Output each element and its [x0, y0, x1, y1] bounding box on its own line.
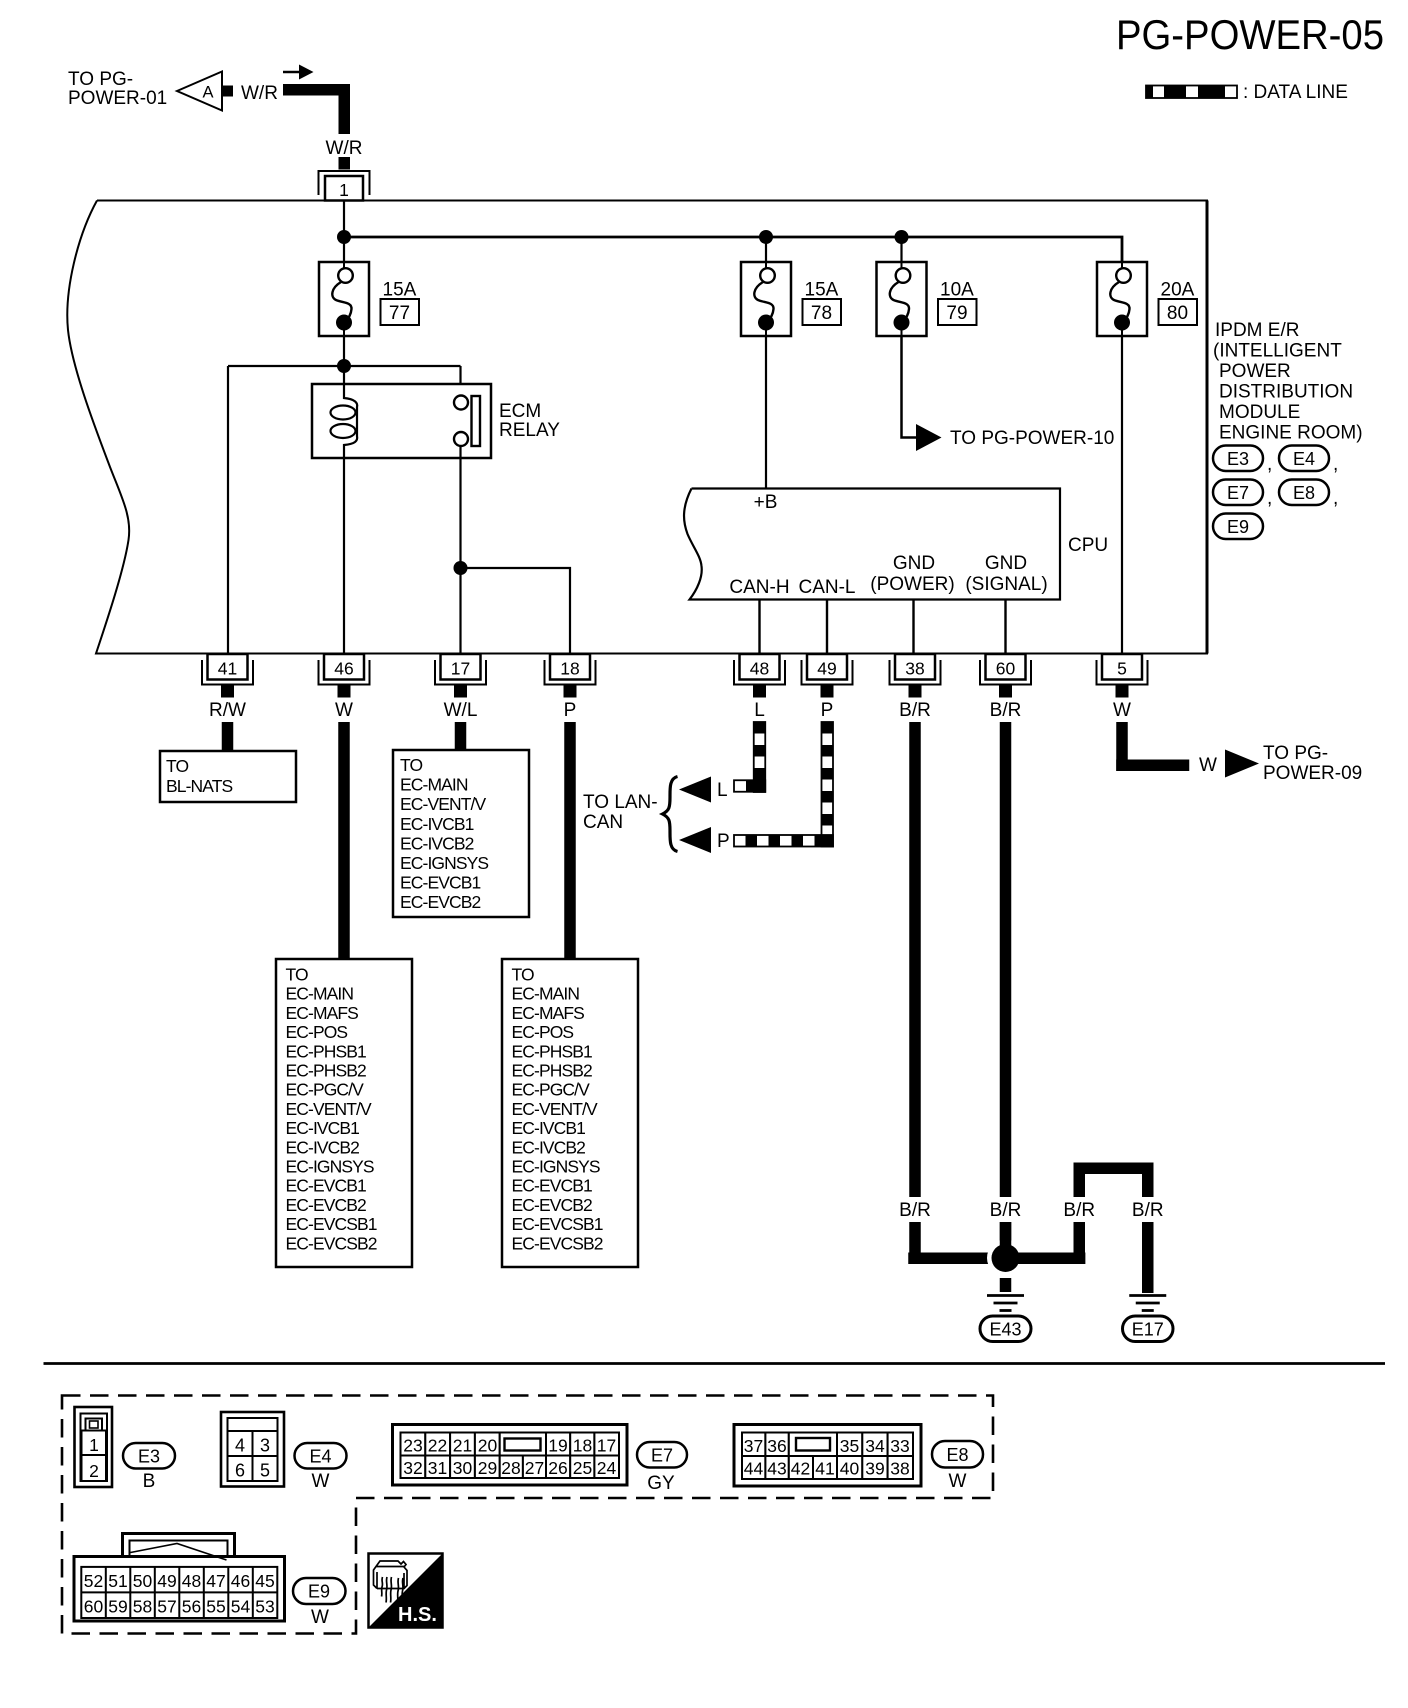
svg-text:48: 48 — [750, 659, 769, 679]
svg-text:30: 30 — [453, 1458, 473, 1478]
fuse 79 10A — [877, 262, 977, 336]
pin 48 — [734, 654, 785, 698]
connector arrow P to LAN-CAN — [679, 827, 711, 853]
svg-text:EC-MAFS: EC-MAFS — [512, 1003, 585, 1023]
svg-text:EC-IGNSYS: EC-IGNSYS — [400, 853, 488, 873]
label IPDM E/R block — [1213, 320, 1363, 444]
svg-text:31: 31 — [428, 1458, 447, 1478]
node junction dot relay-18 — [454, 561, 468, 575]
svg-text:18: 18 — [560, 659, 579, 679]
svg-text:17: 17 — [451, 659, 470, 679]
connector ref E9 oval — [1213, 514, 1263, 540]
wire CAN-L to pin 49 — [826, 600, 828, 655]
connector ref E43 oval — [980, 1316, 1031, 1342]
svg-text:EC-PHSB2: EC-PHSB2 — [286, 1061, 366, 1081]
svg-text:IPDM E/R: IPDM E/R — [1215, 320, 1299, 341]
svg-text:EC-IVCB2: EC-IVCB2 — [286, 1137, 360, 1157]
svg-text:EC-PGC/V: EC-PGC/V — [286, 1080, 365, 1100]
connector ref E3 oval — [1213, 446, 1272, 476]
wire pin1 to bus — [343, 201, 345, 263]
svg-text:EC-MAIN: EC-MAIN — [286, 984, 354, 1004]
svg-text:EC-VENT/V: EC-VENT/V — [512, 1099, 598, 1119]
connector arrow TO PG-POWER-09 — [1225, 750, 1259, 778]
svg-text:10A: 10A — [940, 280, 974, 301]
data wire L from pin 48 — [734, 722, 765, 792]
svg-text:(POWER): (POWER) — [870, 574, 954, 595]
svg-text:EC-MAIN: EC-MAIN — [400, 775, 468, 795]
wire W pin46 down — [338, 722, 350, 959]
svg-text:53: 53 — [255, 1597, 274, 1617]
svg-text:43: 43 — [767, 1459, 786, 1479]
svg-text:H.S.: H.S. — [398, 1604, 437, 1626]
wire R/W to BL-NATS — [222, 722, 234, 751]
svg-text:37: 37 — [744, 1436, 763, 1456]
svg-text:E3: E3 — [1227, 449, 1249, 469]
box EC list pin46 — [276, 959, 412, 1267]
svg-text:49: 49 — [157, 1571, 176, 1591]
svg-text:42: 42 — [791, 1459, 810, 1479]
svg-text:46: 46 — [231, 1571, 250, 1591]
svg-text:19: 19 — [548, 1436, 567, 1456]
svg-text:33: 33 — [890, 1436, 909, 1456]
data line legend — [1146, 82, 1348, 103]
ground E43 — [987, 1296, 1024, 1311]
svg-text:20A: 20A — [1161, 280, 1195, 301]
pin 41 — [202, 654, 253, 698]
svg-text:EC-EVCB1: EC-EVCB1 — [400, 873, 480, 893]
pin 46 — [319, 654, 370, 698]
wire fuse77 to relay with junction — [228, 336, 461, 654]
svg-text:60: 60 — [84, 1597, 104, 1617]
svg-text:49: 49 — [817, 659, 836, 679]
connector ref E9 oval bottom — [293, 1578, 346, 1628]
svg-text:DISTRIBUTION: DISTRIBUTION — [1219, 382, 1353, 403]
svg-text:EC-MAFS: EC-MAFS — [286, 1003, 359, 1023]
svg-text:EC-IVCB2: EC-IVCB2 — [512, 1137, 586, 1157]
svg-text:TO PG-: TO PG- — [1263, 743, 1328, 764]
svg-text:EC-VENT/V: EC-VENT/V — [286, 1099, 372, 1119]
svg-text:B/R: B/R — [899, 1200, 931, 1221]
svg-text:L: L — [754, 700, 765, 721]
svg-text:47: 47 — [206, 1571, 225, 1591]
box EC list pin17 — [393, 750, 529, 917]
logo H.S. — [369, 1554, 443, 1628]
svg-text:A: A — [202, 84, 213, 102]
wire W pin5 elbow — [1116, 722, 1189, 771]
svg-text:25: 25 — [573, 1458, 592, 1478]
connector ref E7 oval bottom — [637, 1442, 687, 1494]
svg-text:CAN-L: CAN-L — [798, 577, 855, 598]
svg-text:51: 51 — [108, 1571, 127, 1591]
svg-text:1: 1 — [339, 180, 349, 200]
pin 49 — [802, 654, 853, 698]
svg-text:80: 80 — [1167, 303, 1188, 324]
svg-text:TO PG-POWER-10: TO PG-POWER-10 — [950, 428, 1114, 449]
wire bus to fuse 79 — [900, 237, 902, 262]
svg-text:W: W — [335, 700, 353, 721]
svg-text:EC-PGC/V: EC-PGC/V — [512, 1080, 591, 1100]
svg-text:50: 50 — [133, 1571, 153, 1591]
title PG-POWER-05 — [1116, 11, 1384, 58]
svg-text:60: 60 — [996, 659, 1016, 679]
svg-text:5: 5 — [1117, 659, 1127, 679]
svg-text:38: 38 — [890, 1459, 909, 1479]
svg-text:EC-IGNSYS: EC-IGNSYS — [512, 1157, 600, 1177]
svg-text:GND: GND — [985, 553, 1027, 574]
svg-text:EC-EVCB1: EC-EVCB1 — [512, 1176, 592, 1196]
svg-text:TO PG-: TO PG- — [68, 69, 133, 90]
wire junction to E43 ground — [1000, 1278, 1012, 1292]
svg-text:77: 77 — [389, 303, 410, 324]
svg-text:TO LAN-: TO LAN- — [583, 792, 658, 813]
svg-text:46: 46 — [334, 659, 353, 679]
svg-text:26: 26 — [548, 1458, 567, 1478]
ground E17 — [1129, 1296, 1166, 1311]
svg-text:B/R: B/R — [899, 700, 931, 721]
svg-text:CAN-H: CAN-H — [729, 577, 789, 598]
node junction dot ground — [992, 1244, 1020, 1272]
svg-text:L: L — [717, 780, 728, 801]
svg-text:36: 36 — [767, 1436, 786, 1456]
wire fuse78 to CPU +B — [765, 336, 767, 489]
svg-text:B/R: B/R — [1132, 1200, 1164, 1221]
dashed connector section border — [62, 1396, 993, 1634]
separator line — [44, 1362, 1386, 1365]
wire B/R pin60 down — [1000, 722, 1012, 1197]
svg-text:RELAY: RELAY — [499, 420, 560, 441]
svg-text:EC-IVCB1: EC-IVCB1 — [400, 814, 474, 834]
connector face E9 — [74, 1534, 285, 1622]
svg-text:W: W — [1113, 700, 1131, 721]
connector ref E4 oval bottom — [295, 1443, 347, 1492]
svg-text:29: 29 — [478, 1458, 497, 1478]
node junction dot bus-fuse77 — [337, 230, 351, 244]
svg-text:56: 56 — [182, 1597, 201, 1617]
svg-text:78: 78 — [811, 303, 832, 324]
svg-text:34: 34 — [865, 1436, 885, 1456]
svg-text:EC-EVCB2: EC-EVCB2 — [512, 1195, 592, 1215]
svg-text:B/R: B/R — [1063, 1200, 1095, 1221]
svg-text:5: 5 — [260, 1461, 270, 1481]
svg-text:,: , — [1267, 454, 1272, 475]
svg-text:POWER-01: POWER-01 — [68, 88, 167, 109]
svg-text:EC-VENT/V: EC-VENT/V — [400, 794, 486, 814]
svg-text:EC-EVCB2: EC-EVCB2 — [286, 1195, 366, 1215]
wire bus to fuse 78 — [765, 237, 767, 262]
connector arrow TO PG-POWER-10 — [916, 424, 942, 451]
connector arrow A to PG-POWER-01 — [177, 72, 233, 111]
connector ref E8 oval bottom — [932, 1441, 983, 1492]
svg-text:24: 24 — [597, 1458, 617, 1478]
svg-text:W: W — [312, 1471, 330, 1492]
data wire P from pin 49 — [734, 722, 833, 847]
svg-text:P: P — [821, 700, 834, 721]
svg-text:1: 1 — [89, 1435, 99, 1455]
svg-text:EC-EVCB2: EC-EVCB2 — [400, 892, 480, 912]
svg-text:E4: E4 — [309, 1447, 331, 1467]
svg-text:23: 23 — [403, 1436, 422, 1456]
node junction dot relay feed — [337, 359, 351, 373]
svg-text:EC-PHSB1: EC-PHSB1 — [512, 1041, 592, 1061]
svg-text:ECM: ECM — [499, 401, 541, 422]
pin 38 — [890, 654, 941, 698]
connector ref E4 oval — [1279, 446, 1338, 476]
svg-text:E7: E7 — [651, 1446, 673, 1466]
svg-text:B: B — [143, 1471, 156, 1492]
svg-text:P: P — [717, 831, 730, 852]
connector ref E7 oval — [1213, 480, 1272, 510]
svg-text:6: 6 — [235, 1461, 245, 1481]
wire relay coil to pin 46 — [343, 458, 345, 654]
wire fuse80 to pin 5 — [1121, 336, 1123, 654]
svg-text:32: 32 — [403, 1458, 422, 1478]
fuse 77 15A — [319, 262, 419, 336]
svg-text:79: 79 — [946, 303, 967, 324]
svg-text:R/W: R/W — [209, 700, 246, 721]
svg-text:CAN: CAN — [583, 812, 623, 833]
connector ref E3 oval bottom — [123, 1443, 175, 1492]
wire B/R pin38 down — [909, 722, 921, 1197]
node junction dot bus-fuse78 — [759, 230, 773, 244]
wire P pin18 down — [564, 722, 576, 959]
svg-text:E8: E8 — [1293, 483, 1315, 503]
svg-text:E9: E9 — [308, 1582, 330, 1602]
svg-text:EC-MAIN: EC-MAIN — [512, 984, 580, 1004]
svg-text:E3: E3 — [138, 1447, 160, 1467]
svg-text:W/R: W/R — [241, 83, 278, 104]
svg-text:E4: E4 — [1293, 449, 1315, 469]
svg-text:EC-PHSB1: EC-PHSB1 — [286, 1041, 366, 1061]
svg-text:P: P — [564, 700, 577, 721]
pin 1 connector — [319, 171, 370, 201]
svg-text:TO: TO — [400, 755, 422, 775]
wire W/L pin17 down — [455, 722, 467, 750]
direction arrow — [283, 65, 314, 80]
svg-text:38: 38 — [905, 659, 924, 679]
ECM relay U1 — [312, 384, 560, 458]
svg-text:59: 59 — [108, 1597, 127, 1617]
svg-text:15A: 15A — [805, 280, 839, 301]
wire branch to pin 18 — [461, 568, 571, 654]
svg-text:,: , — [1333, 488, 1338, 509]
svg-text:4: 4 — [235, 1436, 245, 1456]
pin 18 — [545, 654, 596, 698]
svg-text:EC-EVCSB2: EC-EVCSB2 — [286, 1233, 377, 1253]
svg-text:EC-POS: EC-POS — [512, 1022, 574, 1042]
svg-text:: DATA LINE: : DATA LINE — [1243, 82, 1348, 103]
svg-text:B/R: B/R — [990, 1200, 1022, 1221]
svg-text:28: 28 — [501, 1458, 520, 1478]
svg-text:58: 58 — [133, 1597, 152, 1617]
svg-text:EC-EVCSB1: EC-EVCSB1 — [286, 1214, 377, 1234]
label TO LAN-CAN — [583, 792, 658, 833]
wire relay contact to pin 17 — [459, 446, 461, 654]
connector ref E17 oval — [1123, 1316, 1174, 1342]
svg-text:2: 2 — [89, 1461, 99, 1481]
svg-text:39: 39 — [865, 1459, 884, 1479]
fuse 78 15A — [741, 262, 841, 336]
svg-text:15A: 15A — [383, 280, 417, 301]
svg-text:TO: TO — [166, 756, 188, 776]
svg-text:E17: E17 — [1132, 1320, 1164, 1340]
svg-text:PG-POWER-05: PG-POWER-05 — [1116, 11, 1384, 58]
bus wire horizontal — [344, 237, 1122, 262]
wire CAN-H to pin 48 — [758, 600, 760, 655]
wire GND SIGNAL to pin 60 — [1004, 600, 1006, 655]
svg-text:TO: TO — [512, 965, 534, 985]
wire stub above pin 1 — [339, 157, 351, 170]
svg-text:21: 21 — [453, 1436, 472, 1456]
svg-text:POWER: POWER — [1219, 361, 1291, 382]
connector arrow L to LAN-CAN — [679, 777, 711, 803]
pin 17 — [435, 654, 486, 698]
svg-text:W/L: W/L — [444, 700, 478, 721]
svg-text:BL-NATS: BL-NATS — [166, 776, 233, 796]
svg-text:EC-PHSB2: EC-PHSB2 — [512, 1061, 592, 1081]
connector ref E8 oval — [1279, 480, 1338, 510]
svg-text:45: 45 — [255, 1571, 274, 1591]
CPU box — [684, 489, 1060, 600]
connector face E8 — [734, 1425, 921, 1487]
svg-text:W: W — [311, 1607, 329, 1628]
svg-text:(INTELLIGENT: (INTELLIGENT — [1213, 341, 1342, 362]
svg-text:EC-EVCSB1: EC-EVCSB1 — [512, 1214, 603, 1234]
svg-text:W: W — [949, 1471, 967, 1492]
svg-text:52: 52 — [84, 1571, 103, 1591]
brace — [663, 777, 678, 852]
svg-text:3: 3 — [260, 1436, 270, 1456]
svg-text:44: 44 — [744, 1459, 764, 1479]
svg-text:EC-IVCB1: EC-IVCB1 — [286, 1118, 360, 1138]
label TO PG-POWER-01 — [68, 69, 167, 109]
svg-text:+B: +B — [754, 492, 778, 513]
svg-text:35: 35 — [840, 1436, 859, 1456]
IPDM E/R box outline — [67, 201, 1207, 654]
svg-text:TO: TO — [286, 965, 308, 985]
svg-text:EC-EVCB1: EC-EVCB1 — [286, 1176, 366, 1196]
svg-text:55: 55 — [206, 1597, 225, 1617]
fuse 80 20A — [1097, 262, 1197, 336]
svg-text:EC-EVCSB2: EC-EVCSB2 — [512, 1233, 603, 1253]
svg-text:18: 18 — [573, 1436, 592, 1456]
pin 5 — [1097, 654, 1148, 698]
svg-text:20: 20 — [478, 1436, 498, 1456]
label TO PG-POWER-09 — [1263, 743, 1362, 784]
svg-text:41: 41 — [218, 659, 237, 679]
svg-text:MODULE: MODULE — [1219, 402, 1300, 423]
svg-text:,: , — [1267, 488, 1272, 509]
wire ground loop — [1074, 1163, 1154, 1294]
svg-text:22: 22 — [428, 1436, 447, 1456]
svg-text:E9: E9 — [1227, 517, 1249, 537]
connector face E4 — [221, 1412, 284, 1487]
box EC list pin18 — [502, 959, 638, 1267]
svg-text:,: , — [1333, 454, 1338, 475]
svg-text:EC-POS: EC-POS — [286, 1022, 348, 1042]
svg-text:54: 54 — [231, 1597, 251, 1617]
wire GND POWER to pin 38 — [912, 600, 914, 655]
wire W/R thick elbow — [283, 84, 350, 134]
svg-text:E7: E7 — [1227, 483, 1249, 503]
svg-text:ENGINE ROOM): ENGINE ROOM) — [1219, 423, 1363, 444]
svg-text:57: 57 — [157, 1597, 176, 1617]
box TO BL-NATS — [160, 751, 296, 802]
svg-text:40: 40 — [840, 1459, 860, 1479]
svg-text:W: W — [1199, 755, 1217, 776]
svg-text:27: 27 — [525, 1458, 544, 1478]
svg-text:17: 17 — [597, 1436, 616, 1456]
svg-text:(SIGNAL): (SIGNAL) — [965, 574, 1047, 595]
svg-text:W/R: W/R — [326, 138, 363, 159]
svg-text:GND: GND — [893, 553, 935, 574]
svg-text:GY: GY — [647, 1473, 675, 1494]
wire ground bus — [908, 1253, 1085, 1265]
svg-text:E43: E43 — [989, 1320, 1021, 1340]
connector face E7 — [393, 1425, 628, 1486]
connector face E3 — [75, 1407, 113, 1487]
svg-text:EC-IVCB2: EC-IVCB2 — [400, 833, 474, 853]
svg-text:48: 48 — [182, 1571, 201, 1591]
svg-text:41: 41 — [815, 1459, 834, 1479]
node junction dot bus-fuse79 — [895, 230, 909, 244]
svg-text:EC-IGNSYS: EC-IGNSYS — [286, 1157, 374, 1177]
svg-text:B/R: B/R — [990, 700, 1022, 721]
wire fuse79 elbow to PG-POWER-10 — [902, 336, 917, 438]
svg-text:POWER-09: POWER-09 — [1263, 763, 1362, 784]
svg-text:E8: E8 — [946, 1445, 968, 1465]
svg-text:CPU: CPU — [1068, 535, 1108, 556]
svg-text:EC-IVCB1: EC-IVCB1 — [512, 1118, 586, 1138]
pin 60 — [980, 654, 1031, 698]
